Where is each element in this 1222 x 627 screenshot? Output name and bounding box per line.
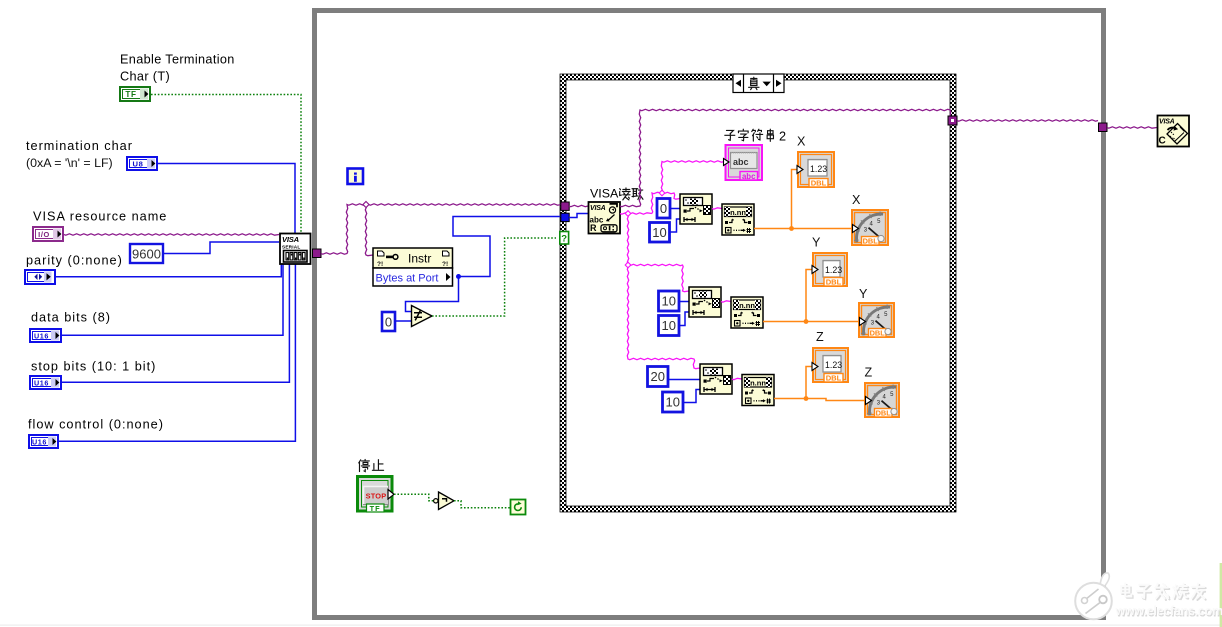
gauge Z: [865, 383, 899, 417]
wire: VISA read buffer out (pink wavy): [620, 213, 652, 214]
not gate: [434, 492, 454, 510]
svg-text:Y: Y: [812, 236, 821, 250]
svg-text:C: C: [1159, 136, 1166, 147]
wire: stop bits -> VISA serial: [62, 264, 289, 382]
control U16: stop bits: [30, 376, 61, 389]
constant 20 (row3 offset): [648, 367, 669, 387]
case selector label [true]: [733, 74, 784, 93]
STOP button: [358, 477, 395, 513]
VISA Close icon: [1158, 116, 1190, 147]
wire: data bits -> VISA serial: [62, 264, 283, 335]
svg-text:10: 10: [666, 395, 680, 410]
svg-text:2: 2: [779, 130, 787, 144]
function: string subset row1: [680, 194, 712, 224]
function: fract/exp string to number row3: [742, 375, 774, 406]
gauge Y: [859, 303, 894, 337]
svg-text:0: 0: [660, 201, 667, 216]
constant 0 (compare): [382, 312, 395, 331]
wire: 0 -> subset1: [670, 208, 680, 210]
svg-text:1.23: 1.23: [825, 360, 842, 370]
svg-text:9600: 9600: [132, 247, 161, 262]
VISA Configure Serial Port icon: [280, 234, 311, 265]
control TF: Enable Termination Char: [120, 87, 150, 101]
tunnel: while loop right (purple): [1099, 123, 1108, 132]
svg-text:stop bits (10: 1 bit): stop bits (10: 1 bit): [31, 360, 156, 374]
svg-text:TF: TF: [370, 504, 381, 513]
wire: 10 -> subset2: [679, 301, 689, 303]
iteration terminal i: [348, 169, 364, 185]
function: fract/exp string to number row1: [722, 204, 754, 235]
svg-text:Z: Z: [816, 330, 824, 344]
VISA Read icon: [589, 202, 621, 234]
wire: not -> loop condition (green dotted): [454, 501, 510, 508]
svg-text:TF: TF: [125, 90, 136, 99]
wire: 9600 -> VISA serial: [163, 242, 279, 254]
wire: subset2 -> fract2 (pink): [721, 301, 731, 302]
svg-text:10: 10: [662, 318, 676, 333]
svg-text:U16: U16: [32, 438, 47, 447]
wire: fract1 -> X indicators (orange): [754, 228, 852, 230]
svg-text:VISA: VISA: [590, 187, 619, 201]
svg-text:0: 0: [385, 315, 392, 330]
svg-text:termination char: termination char: [26, 139, 133, 153]
junction diamonds pink: [625, 211, 631, 217]
tunnel: while loop left (VISA resource): [313, 249, 322, 258]
wire: case tunnel -> loop tunnel (purple wavy): [957, 120, 1098, 121]
svg-text:I/O: I/O: [38, 230, 50, 239]
svg-text:n.nn: n.nn: [730, 208, 746, 217]
wire: subset1 -> fract1 (pink): [712, 208, 722, 209]
svg-text:X: X: [797, 135, 806, 149]
svg-text:Bytes at Port: Bytes at Port: [376, 273, 439, 285]
wire: loop tunnel -> VISA close (purple wavy): [1107, 127, 1157, 128]
function: string subset row3: [700, 364, 732, 394]
not-equal node: [412, 306, 433, 327]
svg-text:Instr: Instr: [408, 252, 431, 266]
wire: 10 -> subset1: [670, 219, 681, 232]
svg-text:n.nn: n.nn: [739, 301, 755, 310]
constant 9600 (baud rate): [130, 244, 163, 263]
string indicator: substring 2 (abc): [724, 145, 763, 181]
wire: 20 -> subset3: [668, 379, 700, 381]
svg-text:DBL: DBL: [826, 277, 842, 286]
svg-text:VISA: VISA: [282, 235, 299, 244]
wire: fract3 -> Z indicators (orange): [774, 399, 864, 401]
svg-text:VISA: VISA: [1159, 119, 1175, 126]
wire: subset3 -> fract3 (pink): [732, 378, 742, 379]
svg-text:(0xA = '\n' = LF): (0xA = '\n' = LF): [26, 156, 113, 170]
wire: not-equal -> case selector ? (green dotted): [432, 238, 556, 316]
wire: VISA serial -> tunnel -> property node / case (purple wavy): [321, 204, 561, 254]
label: substring 2 (CJK): [725, 130, 735, 140]
constant 0 (row1 offset): [657, 199, 670, 219]
constant 10 (row2 length): [659, 316, 680, 336]
constant 10 (row3 length): [663, 392, 684, 412]
svg-text:flow control (0:none): flow control (0:none): [28, 418, 164, 432]
svg-text:abc: abc: [742, 172, 756, 181]
watermark CJK text: [1122, 585, 1132, 598]
wire: parity -> VISA serial: [55, 264, 281, 277]
svg-text:DBL: DBL: [870, 328, 886, 337]
wire: STOP -> not (green dotted): [394, 494, 434, 501]
svg-text:R: R: [590, 223, 597, 233]
control U8: termination char: [127, 157, 157, 170]
control I/O: VISA resource name: [33, 227, 63, 241]
svg-text:10: 10: [652, 225, 666, 240]
svg-text:data bits (8): data bits (8): [31, 311, 111, 325]
wire: VISA read -> case out tunnel (purple wavy): [620, 109, 951, 206]
function: string subset row2: [689, 287, 721, 317]
svg-text:VISA: VISA: [590, 205, 606, 212]
wire: 0 -> not-equal: [395, 320, 412, 322]
svg-text:?!: ?!: [377, 261, 383, 268]
svg-text:parity (0:none): parity (0:none): [26, 254, 123, 268]
indicator Y numeric DBL: [812, 253, 847, 286]
svg-text:?: ?: [561, 234, 567, 245]
svg-text:STOP: STOP: [366, 492, 387, 501]
svg-text:DBL: DBL: [826, 373, 842, 382]
wire: Bytes at Port output (blue): [453, 217, 562, 277]
tunnel: case left purple (VISA resource in): [561, 202, 569, 210]
svg-text:n.nn: n.nn: [750, 379, 766, 388]
constant 10 (row1 length): [650, 223, 670, 243]
wire: U8 termination char -> VISA serial: [158, 164, 295, 234]
tunnel: case left blue (byte count in): [561, 213, 569, 221]
wire: VISA resource name -> VISA serial (purple wavy): [64, 234, 279, 235]
control U16: flow control: [29, 435, 58, 448]
tunnel: case selector ?: [560, 232, 569, 245]
watermark logo circle: [1075, 573, 1112, 619]
wire: fract2 -> Y indicators (orange): [763, 321, 858, 323]
junction diamond purple: [363, 202, 369, 208]
svg-text:10: 10: [662, 294, 676, 309]
svg-text:?!: ?!: [442, 261, 448, 268]
svg-text:20: 20: [651, 369, 665, 384]
svg-text:www.elecfans.com: www.elecfans.com: [1115, 604, 1222, 618]
indicator Z numeric DBL: [812, 348, 848, 382]
svg-text:U16: U16: [34, 332, 49, 341]
svg-text:DBL: DBL: [811, 178, 827, 187]
indicator X numeric DBL: [797, 152, 834, 187]
svg-text:DBL: DBL: [863, 236, 879, 245]
svg-text:VISA resource name: VISA resource name: [33, 210, 167, 224]
tunnel: case right out (purple): [948, 116, 957, 125]
label: stop (CJK): [359, 459, 370, 471]
function: fract/exp string to number row2: [731, 297, 763, 328]
wire: TF -> VISA serial (green dotted): [151, 95, 301, 234]
gauge X: [852, 210, 888, 245]
svg-text:1.23: 1.23: [810, 164, 827, 174]
constant 10 (row2 offset): [659, 291, 680, 311]
svg-text:DBL: DBL: [876, 408, 892, 417]
wire: purple tunnel -> VISA read: [569, 205, 588, 206]
svg-text:Char (T): Char (T): [120, 70, 170, 84]
svg-text:Y: Y: [859, 287, 868, 301]
svg-text:U16: U16: [34, 379, 49, 388]
control enum: parity: [25, 270, 55, 284]
svg-text:SERIAL: SERIAL: [282, 244, 300, 249]
control U16: data bits: [30, 329, 61, 342]
page separator line: [0, 625, 1222, 626]
while loop border: [312, 8, 1106, 620]
svg-text:X: X: [852, 193, 861, 207]
svg-text:U8: U8: [133, 160, 144, 169]
wire: flow control -> VISA serial: [59, 264, 295, 441]
green strip right edge: [1220, 563, 1222, 627]
svg-text:1.23: 1.23: [825, 265, 842, 275]
property node: Instr / Bytes at Port: [373, 248, 453, 286]
svg-text:abc: abc: [733, 157, 749, 167]
svg-text:Enable Termination: Enable Termination: [120, 53, 235, 67]
loop condition terminal: [511, 500, 526, 515]
svg-text:Z: Z: [865, 366, 873, 380]
wire: blue tunnel -> VISA read: [569, 214, 588, 218]
